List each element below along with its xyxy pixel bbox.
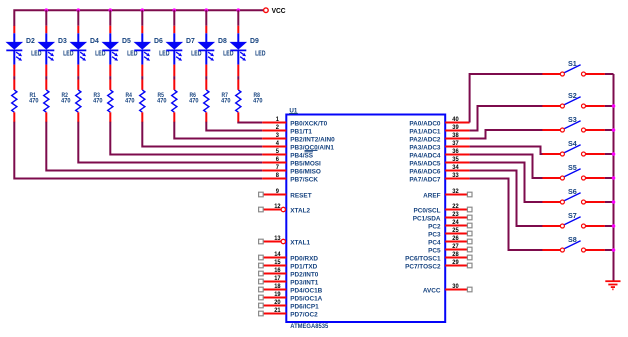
switch S8: [542, 235, 605, 252]
wire U1 pin 37 to S4: [470, 147, 543, 155]
svg-text:PC3: PC3: [428, 231, 441, 238]
pin 9 RESET: [259, 188, 312, 199]
pin 34 PA6/ADC6: [409, 164, 469, 175]
wire U1 pin 38 to S3: [470, 130, 543, 139]
wire VCC rail to D9: [237, 10, 239, 26]
wire VCC rail: [14, 10, 263, 26]
junction S5/rail: [612, 176, 616, 180]
svg-text:PD2/INT0: PD2/INT0: [290, 271, 319, 278]
svg-text:PA7/ADC7: PA7/ADC7: [409, 176, 441, 183]
junction on VCC rail col 4: [109, 8, 113, 12]
wire LED to resistor: [205, 76, 207, 79]
svg-text:23: 23: [452, 211, 459, 218]
power terminal VCC: [264, 8, 269, 13]
svg-text:8: 8: [276, 172, 279, 179]
svg-text:39: 39: [452, 124, 459, 131]
svg-text:25: 25: [452, 227, 459, 234]
switch S3: [542, 115, 605, 132]
junction on VCC rail col 7: [205, 8, 209, 12]
wire S2 to ground rail: [605, 105, 614, 107]
svg-text:470: 470: [253, 98, 263, 105]
wire S7 to ground rail: [605, 225, 614, 227]
svg-text:AREF: AREF: [423, 192, 440, 199]
junction on VCC rail col 6: [173, 8, 177, 12]
svg-text:LED: LED: [95, 51, 105, 58]
svg-text:LED: LED: [127, 51, 137, 58]
pin 15 PD1/TXD: [259, 259, 318, 270]
chip U1 body ATMEGA8535 MCU: [286, 115, 445, 323]
wire R7 to U1 pin 2: [206, 122, 262, 131]
svg-text:S4: S4: [568, 139, 577, 148]
resistor R3 470: [76, 80, 103, 123]
svg-text:2: 2: [276, 124, 279, 131]
svg-text:470: 470: [189, 98, 199, 105]
pin 13 XTAL1: [259, 235, 311, 246]
wire VCC rail to D3: [45, 10, 47, 26]
pin 33 PA7/ADC7: [409, 172, 469, 183]
svg-text:D3: D3: [58, 36, 67, 45]
wire LED to resistor: [141, 76, 143, 79]
wire R3 to U1 pin 6: [78, 122, 262, 163]
pin 35 PA5/ADC5: [409, 156, 469, 167]
pin 26 PC4: [428, 235, 472, 246]
wire LED to resistor: [109, 76, 111, 79]
pin 22 PC0/SCL: [414, 203, 473, 214]
svg-text:D6: D6: [154, 36, 163, 45]
svg-text:PC1/SDA: PC1/SDA: [413, 215, 441, 222]
resistor R1 470: [12, 80, 39, 123]
junction on VCC rail col 8: [237, 8, 241, 12]
wire LED to resistor: [77, 76, 79, 79]
pin 29 PC7/TOSC2: [405, 259, 472, 270]
wire S5 to ground rail: [605, 177, 614, 179]
svg-text:24: 24: [452, 219, 459, 226]
svg-text:21: 21: [274, 307, 281, 314]
wire U1 pin 34 to S7: [470, 171, 543, 227]
svg-text:29: 29: [452, 259, 459, 266]
svg-text:470: 470: [61, 98, 71, 105]
junction S8/rail: [612, 248, 616, 252]
svg-text:PA5/ADC5: PA5/ADC5: [409, 160, 441, 167]
svg-text:26: 26: [452, 235, 459, 242]
svg-text:18: 18: [274, 283, 281, 290]
svg-text:PB1/T1: PB1/T1: [290, 128, 312, 135]
switch S4: [542, 139, 605, 156]
svg-text:34: 34: [452, 164, 459, 171]
svg-text:PC5: PC5: [428, 247, 441, 254]
svg-text:D4: D4: [90, 36, 99, 45]
svg-text:28: 28: [452, 251, 459, 258]
pin 24 PC2: [428, 219, 472, 230]
svg-text:XTAL2: XTAL2: [290, 207, 310, 214]
svg-text:S2: S2: [568, 91, 577, 100]
svg-text:PA2/ADC2: PA2/ADC2: [409, 136, 441, 143]
junction S6/rail: [612, 200, 616, 204]
svg-text:470: 470: [221, 98, 231, 105]
svg-text:LED: LED: [31, 51, 41, 58]
svg-text:PB2/INT2/AIN0: PB2/INT2/AIN0: [290, 136, 335, 143]
svg-text:PA1/ADC1: PA1/ADC1: [409, 128, 441, 135]
svg-text:AVCC: AVCC: [423, 287, 441, 294]
svg-text:PA6/ADC6: PA6/ADC6: [409, 168, 441, 175]
svg-text:38: 38: [452, 132, 459, 139]
svg-text:LED: LED: [223, 51, 233, 58]
svg-text:7: 7: [276, 164, 279, 171]
wire R6 to U1 pin 3: [174, 122, 262, 139]
svg-text:PC0/SCL: PC0/SCL: [414, 207, 441, 214]
pin 40 PA0/ADC0: [409, 116, 469, 127]
svg-text:PB6/MISO: PB6/MISO: [290, 168, 321, 175]
svg-text:PB5/MOSI: PB5/MOSI: [290, 160, 321, 167]
svg-text:14: 14: [274, 251, 281, 258]
resistor R6 470: [172, 80, 199, 123]
wire R8 to U1 pin 1: [238, 121, 262, 124]
svg-text:9: 9: [276, 188, 279, 195]
svg-text:3: 3: [276, 132, 279, 139]
ground: [605, 281, 620, 289]
svg-text:16: 16: [274, 267, 281, 274]
svg-text:37: 37: [452, 140, 459, 147]
svg-text:PD3/INT1: PD3/INT1: [290, 279, 319, 286]
wire LED to resistor: [237, 76, 239, 79]
svg-text:LED: LED: [191, 51, 201, 58]
resistor R4 470: [108, 80, 135, 123]
svg-text:S7: S7: [568, 211, 577, 220]
junction on VCC rail col 3: [77, 8, 81, 12]
svg-text:PD6/ICP1: PD6/ICP1: [290, 303, 319, 310]
switch S6: [542, 187, 605, 204]
junction S2/rail: [612, 104, 616, 108]
wire LED to resistor: [173, 76, 175, 79]
svg-text:PD1/TXD: PD1/TXD: [290, 263, 317, 270]
LED D6: [134, 26, 170, 65]
svg-text:D8: D8: [218, 36, 227, 45]
wire VCC rail to D4: [77, 10, 79, 26]
pin 23 PC1/SDA: [413, 211, 472, 222]
svg-text:PA4/ADC4: PA4/ADC4: [409, 152, 441, 159]
wire ground rail: [613, 74, 615, 281]
svg-text:RESET: RESET: [290, 192, 311, 199]
svg-text:XTAL1: XTAL1: [290, 239, 310, 246]
LED D5: [102, 26, 138, 65]
pin 6 PB5/MOSI: [262, 156, 321, 167]
svg-text:35: 35: [452, 156, 459, 163]
svg-text:4: 4: [276, 140, 279, 147]
wire U1 pin 39 to S2: [470, 106, 543, 131]
svg-text:PA0/ADC0: PA0/ADC0: [409, 120, 441, 127]
svg-text:LED: LED: [255, 51, 265, 58]
pin 4 PB3/OC0/AIN1: [262, 140, 334, 151]
pin 25 PC3: [428, 227, 472, 238]
wire LED to resistor: [13, 76, 15, 79]
junction S3/rail: [612, 128, 616, 132]
svg-text:PB4/SS: PB4/SS: [290, 152, 313, 159]
resistor R7 470: [204, 80, 231, 123]
wire R2 to U1 pin 7: [46, 122, 262, 171]
svg-text:40: 40: [452, 116, 459, 123]
wire U1 pin 35 to S6: [470, 163, 543, 203]
pin 27 PC5: [428, 243, 472, 254]
pin 3 PB2/INT2/AIN0: [262, 132, 335, 143]
switch S1: [542, 59, 605, 76]
LED D4: [70, 26, 106, 65]
wire S6 to ground rail: [605, 201, 614, 203]
svg-text:15: 15: [274, 259, 281, 266]
svg-text:S5: S5: [568, 163, 577, 172]
svg-text:PB0/XCK/T0: PB0/XCK/T0: [290, 120, 327, 127]
svg-text:S3: S3: [568, 115, 577, 124]
wire VCC rail to D8: [205, 10, 207, 26]
pin 12 XTAL2: [259, 203, 311, 214]
wire VCC rail to D6: [141, 10, 143, 26]
LED D7: [166, 26, 202, 65]
svg-text:470: 470: [93, 98, 103, 105]
svg-text:PA3/ADC3: PA3/ADC3: [409, 144, 441, 151]
svg-text:470: 470: [157, 98, 167, 105]
svg-text:1: 1: [276, 116, 279, 123]
switch S2: [542, 91, 605, 108]
pin 18 PD4/OC1B: [259, 283, 323, 294]
svg-text:PD7/OC2: PD7/OC2: [290, 311, 318, 318]
pin 32 AREF: [423, 188, 472, 199]
pin 14 PD0/RXD: [259, 251, 319, 262]
svg-text:D9: D9: [250, 36, 259, 45]
pin 16 PD2/INT0: [259, 267, 319, 278]
resistor R8 470: [236, 80, 263, 123]
svg-text:PD5/OC1A: PD5/OC1A: [290, 295, 322, 302]
pin 20 PD6/ICP1: [259, 299, 320, 310]
svg-text:PC6/TOSC1: PC6/TOSC1: [405, 255, 441, 262]
pin 5 PB4/SS: [262, 148, 313, 159]
svg-text:20: 20: [274, 299, 281, 306]
LED D8: [198, 26, 234, 65]
pin 28 PC6/TOSC1: [405, 251, 472, 262]
wire VCC rail to D5: [109, 10, 111, 26]
svg-text:27: 27: [452, 243, 459, 250]
wire R1 to U1 pin 8: [14, 122, 262, 179]
svg-text:VCC: VCC: [272, 8, 286, 15]
LED D2: [6, 26, 42, 65]
svg-text:PB7/SCK: PB7/SCK: [290, 176, 318, 183]
wire S3 to ground rail: [605, 129, 614, 131]
svg-text:PD4/OC1B: PD4/OC1B: [290, 287, 322, 294]
junction on VCC rail col 2: [45, 8, 49, 12]
pin 37 PA3/ADC3: [409, 140, 469, 151]
svg-text:33: 33: [452, 172, 459, 179]
wire S1 to ground rail: [605, 73, 614, 75]
svg-text:36: 36: [452, 148, 459, 155]
svg-text:PC2: PC2: [428, 223, 441, 230]
junction S4/rail: [612, 152, 616, 156]
pin 8 PB7/SCK: [262, 172, 318, 183]
wire LED to resistor: [45, 76, 47, 79]
svg-text:LED: LED: [159, 51, 169, 58]
pin 1 PB0/XCK/T0: [262, 116, 327, 127]
svg-text:32: 32: [452, 188, 459, 195]
svg-text:PC7/TOSC2: PC7/TOSC2: [405, 263, 441, 270]
svg-text:22: 22: [452, 203, 459, 210]
svg-text:D5: D5: [122, 36, 131, 45]
svg-text:13: 13: [274, 235, 281, 242]
wire S8 to ground rail: [605, 249, 614, 251]
svg-text:S8: S8: [568, 235, 577, 244]
svg-text:ATMEGA8535: ATMEGA8535: [290, 323, 328, 330]
resistor R2 470: [44, 80, 71, 123]
pin 38 PA2/ADC2: [409, 132, 469, 143]
svg-text:6: 6: [276, 156, 279, 163]
pin 39 PA1/ADC1: [409, 124, 469, 135]
resistor R5 470: [140, 80, 167, 123]
svg-text:470: 470: [125, 98, 135, 105]
wire R4 to U1 pin 5: [110, 122, 262, 155]
switch S5: [542, 163, 605, 180]
LED D9: [230, 26, 266, 65]
pin 19 PD5/OC1A: [259, 291, 323, 302]
pin 17 PD3/INT1: [259, 275, 319, 286]
svg-text:17: 17: [274, 275, 281, 282]
wire VCC rail to D7: [173, 10, 175, 26]
pin 7 PB6/MISO: [262, 164, 321, 175]
svg-text:PC4: PC4: [428, 239, 441, 246]
wire S4 to ground rail: [605, 153, 614, 155]
pin 21 PD7/OC2: [259, 307, 318, 318]
svg-text:470: 470: [29, 98, 39, 105]
svg-text:S6: S6: [568, 187, 577, 196]
svg-text:19: 19: [274, 291, 281, 298]
pin 2 PB1/T1: [262, 124, 312, 135]
switch S7: [542, 211, 605, 228]
wire U1 pin 40 to S1: [470, 74, 543, 123]
pin 36 PA4/ADC4: [409, 148, 469, 159]
wire U1 pin 33 to S8: [470, 179, 543, 251]
svg-text:30: 30: [452, 283, 459, 290]
svg-text:5: 5: [276, 148, 279, 155]
LED D3: [38, 26, 74, 65]
svg-text:LED: LED: [63, 51, 73, 58]
junction on VCC rail col 5: [141, 8, 145, 12]
svg-text:D7: D7: [186, 36, 195, 45]
svg-text:PD0/RXD: PD0/RXD: [290, 255, 318, 262]
label U1: [289, 107, 298, 114]
wire R5 to U1 pin 4: [142, 122, 262, 147]
junction S7/rail: [612, 224, 616, 228]
wire U1 pin 36 to S5: [470, 155, 543, 179]
svg-text:S1: S1: [568, 59, 577, 68]
pin 30 AVCC: [423, 283, 472, 294]
svg-text:12: 12: [274, 203, 281, 210]
svg-text:D2: D2: [26, 36, 35, 45]
